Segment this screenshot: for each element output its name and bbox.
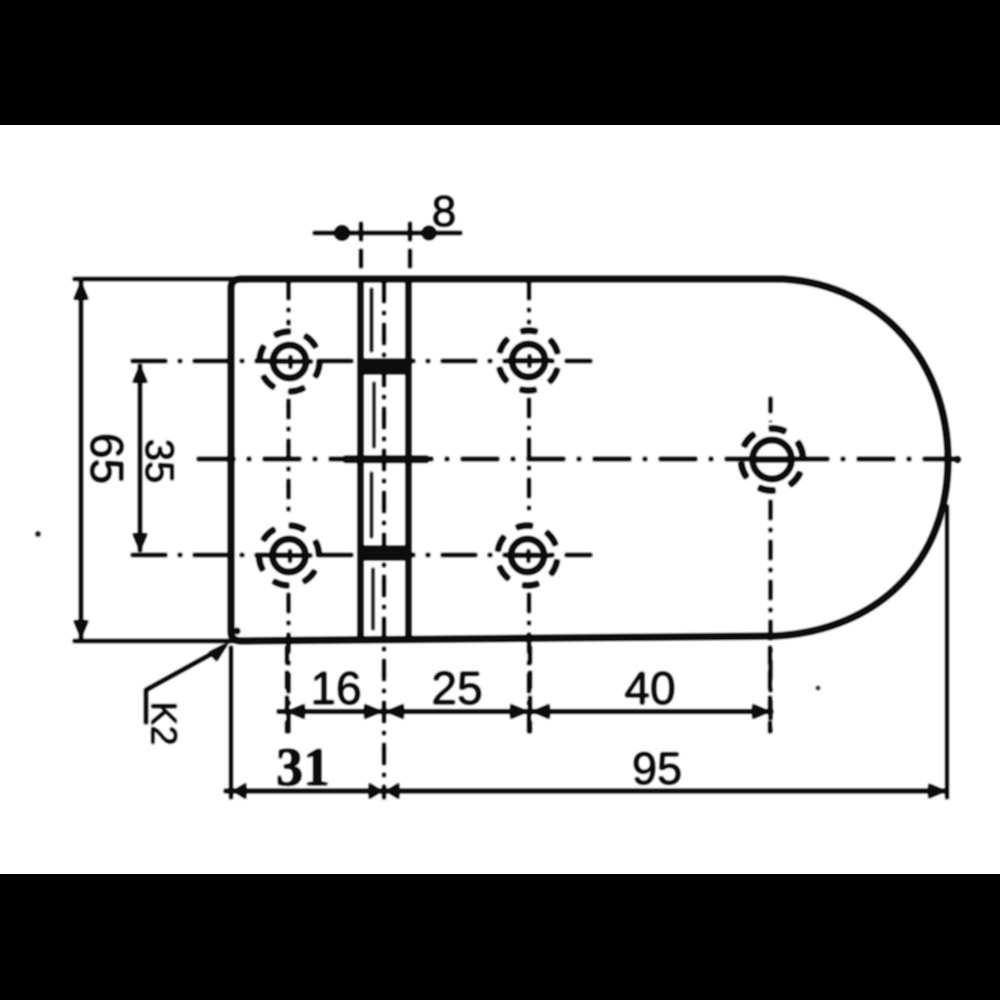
knuckle band top <box>358 359 411 374</box>
hole H3 slot line <box>268 554 312 558</box>
top hole row centerline <box>131 359 592 363</box>
knuckle inner pin line segment a <box>370 288 373 352</box>
svg-text:65: 65 <box>81 433 133 484</box>
hole H2 slot line <box>508 359 552 363</box>
row1 arrow at 287 <box>287 704 305 719</box>
dimension 8 line <box>313 231 462 235</box>
right hole column centerline middle <box>527 398 530 518</box>
svg-text:95: 95 <box>632 743 682 794</box>
row1 extension line at x287 <box>285 646 288 733</box>
right hole column centerline lower <box>527 593 530 733</box>
dimension 65 line <box>79 281 83 639</box>
hole H4 center tick <box>527 550 530 563</box>
far hole H5 slot <box>753 457 793 462</box>
far hole H5 countersink dashed ring <box>731 419 813 501</box>
row1 extension line at x770 <box>768 646 771 733</box>
dimension 35 arrow down <box>133 534 148 552</box>
far hole H5 circle <box>753 440 792 479</box>
row2 double arrow left at 384 <box>369 783 382 799</box>
speck left margin <box>36 532 41 537</box>
knuckle band bottom <box>358 546 411 560</box>
knuckle right line <box>406 279 411 639</box>
K2 leader line <box>146 647 224 724</box>
dimension 35 line <box>138 364 142 552</box>
svg-text:25: 25 <box>431 662 482 714</box>
hinge pin centerline <box>382 281 385 799</box>
dimension row 31-95 line <box>224 789 948 793</box>
bottom edge left extension line <box>73 639 236 643</box>
speck near plate corner <box>234 628 240 634</box>
right hole column centerline upper <box>527 282 530 324</box>
svg-text:31: 31 <box>276 737 330 797</box>
hole H1 center tick <box>289 356 292 369</box>
row1 extension line at x530 <box>528 646 531 733</box>
svg-text:40: 40 <box>624 662 675 714</box>
dimension 8 left extension tick <box>359 222 362 272</box>
top edge left extension line <box>73 277 236 281</box>
svg-text:8: 8 <box>432 187 456 236</box>
row1 double arrow right at 384 <box>386 704 404 719</box>
row1 double arrow left at 530 <box>511 704 529 719</box>
hole H4 slot line <box>507 554 551 558</box>
hole H1 circle <box>273 345 306 378</box>
row1 double arrow right at 530 <box>532 704 550 719</box>
left hole column centerline middle <box>287 399 290 518</box>
row1 double arrow left at 384 <box>365 704 383 719</box>
main horizontal centerline <box>197 457 958 461</box>
dimension 8 left dot arrow <box>335 226 350 241</box>
K2 leader arrow <box>209 642 229 661</box>
svg-text:16: 16 <box>310 662 361 714</box>
hole H3 circle <box>273 539 306 572</box>
row2 extension line at x947 <box>945 505 948 799</box>
hole H3 center tick <box>289 550 292 563</box>
knuckle inner pin line segment d <box>372 568 374 630</box>
hole H1 slot line <box>269 360 313 364</box>
centerline end dot <box>954 456 960 462</box>
far hole column centerline lower <box>769 500 772 733</box>
row2 arrow at 231 <box>233 783 246 799</box>
hole H3 countersink dashed ring <box>248 515 330 597</box>
far hole column centerline upper <box>769 397 772 422</box>
dimension row 16-25-40 line <box>277 710 773 714</box>
dimension 65 arrow down <box>74 621 89 639</box>
hole H1 countersink dashed ring <box>260 332 320 392</box>
dimension 35 arrow up <box>133 365 148 383</box>
row2 double arrow right at 384 <box>386 783 399 799</box>
knuckle inner pin line segment b <box>373 382 375 448</box>
plate outline <box>231 279 948 641</box>
bottom hole row centerline <box>131 553 592 557</box>
row1 arrow at 770 <box>753 704 771 719</box>
knuckle band middle <box>344 456 428 463</box>
hole H2 countersink dashed ring <box>492 324 565 397</box>
hole H2 center tick <box>528 355 531 368</box>
row2 extension line at x231 <box>229 646 232 799</box>
hole H4 countersink dashed ring <box>494 522 562 590</box>
dimension 8 right extension tick <box>408 222 411 272</box>
svg-text:K2: K2 <box>144 701 185 745</box>
left hole column centerline upper <box>287 282 290 325</box>
dimension 8 right dot arrow <box>422 226 436 240</box>
speck below arc <box>816 686 820 690</box>
hole H2 circle <box>512 344 545 377</box>
dimension 65 arrow up <box>74 282 89 300</box>
knuckle left line <box>358 279 363 640</box>
left hole column centerline lower <box>287 593 290 733</box>
svg-text:35: 35 <box>137 439 181 484</box>
knuckle inner pin line segment c <box>370 472 372 538</box>
row2 arrow at 947 <box>929 784 947 799</box>
hole H4 circle <box>511 539 544 572</box>
